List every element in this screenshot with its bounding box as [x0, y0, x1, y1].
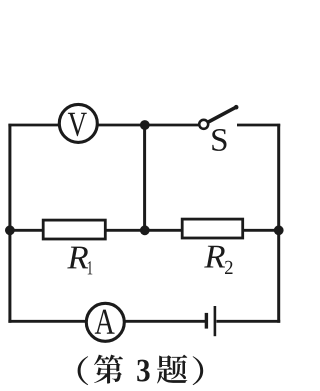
- wire: top rail middle segment: [98, 124, 200, 127]
- wire: right rail: [277, 124, 280, 323]
- node: middle rail center dot: [140, 225, 150, 235]
- node: top junction dot: [140, 120, 150, 130]
- resistor R2 label R: [204, 246, 225, 268]
- ammeter A1 circle: [86, 303, 124, 341]
- wire: middle rail left segment: [8, 229, 43, 232]
- wire: top rail right segment: [237, 124, 280, 127]
- wire: middle rail center segment: [106, 229, 183, 232]
- resistor R1 box: [43, 220, 105, 239]
- caption open paren （: [78, 356, 89, 385]
- resistor R2 box: [182, 219, 243, 238]
- node: middle rail right dot: [274, 225, 284, 235]
- wire: top rail left segment: [8, 124, 59, 127]
- battery cell short plate (negative): [205, 313, 208, 329]
- voltmeter V1 label V: [68, 113, 87, 137]
- resistor R1 label subscript 1: [88, 261, 93, 274]
- wire: middle rail right segment: [242, 229, 280, 232]
- caption bold numeral 3: [137, 360, 149, 382]
- resistor R2 label subscript 2: [225, 261, 233, 274]
- wire: bottom rail left segment: [8, 320, 86, 323]
- resistor R1 label R: [67, 247, 88, 269]
- wire: middle vertical branch: [143, 125, 146, 230]
- caption character 题: [157, 355, 187, 384]
- node: middle rail left dot: [5, 225, 15, 235]
- voltmeter V1 circle: [59, 104, 97, 142]
- wire: bottom rail middle segment: [124, 320, 205, 323]
- ammeter A1 label A: [95, 310, 115, 334]
- wire: left rail: [8, 124, 11, 323]
- wire: bottom rail right segment: [216, 320, 280, 323]
- switch S pivot circle: [199, 120, 208, 129]
- switch S lever arm: [209, 107, 236, 121]
- caption close paren ）: [193, 356, 204, 385]
- switch S label: [212, 129, 226, 151]
- battery cell long plate (positive): [214, 306, 217, 336]
- caption character 第: [94, 355, 123, 384]
